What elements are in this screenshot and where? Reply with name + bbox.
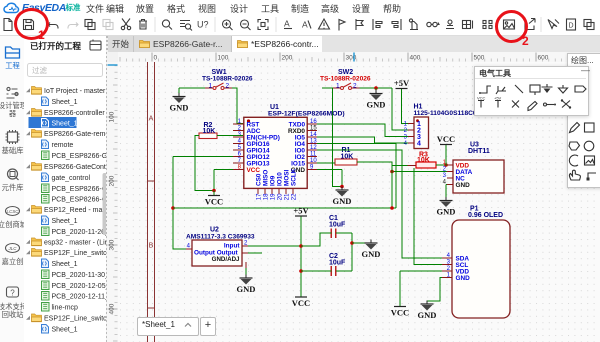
wire R1 net down to OLED SCL <box>414 168 442 265</box>
EasyEDA logo <box>1 0 96 14</box>
tree row ESP12F_Line_switch (folder) <box>26 250 30 254</box>
svg-text:A: A <box>284 19 290 29</box>
wire U3 GND down <box>445 185 447 201</box>
wire U1 GND pin east <box>317 169 342 171</box>
junction rail/input <box>299 244 303 248</box>
tree row gate_control (sheet) <box>42 173 49 182</box>
sidebar tab parts-lib <box>2 169 24 192</box>
toolbar icon netlabel <box>356 19 363 30</box>
svg-text:2: 2 <box>226 83 230 90</box>
svg-text:100: 100 <box>109 111 116 122</box>
svg-text:0: 0 <box>154 55 158 62</box>
svg-text:过滤: 过滤 <box>32 65 47 75</box>
svg-text:SCLK: SCLK <box>291 168 298 186</box>
svg-text:B: B <box>149 243 154 250</box>
svg-text:14: 14 <box>310 132 317 138</box>
svg-text:U2: U2 <box>210 227 219 234</box>
power flag +5V above U2 <box>293 206 309 217</box>
wire C1 west <box>301 233 331 246</box>
toolbar icon sep <box>548 20 559 29</box>
ground GND below U1 <box>333 187 352 207</box>
svg-text:PCB_2020-11-30_: PCB_2020-11-30_ <box>52 272 109 279</box>
schematic sheet frame border <box>148 62 155 342</box>
polygon tool <box>569 142 580 150</box>
tree row PCB_2020-11-30_ (pcb) <box>42 270 50 279</box>
pencil tool <box>570 123 580 133</box>
svg-text:+5V: +5V <box>293 206 309 216</box>
svg-text:Sheet_1: Sheet_1 <box>52 261 78 268</box>
svg-text:16: 16 <box>310 119 317 125</box>
wire branch to R3 <box>392 165 408 167</box>
wire C2 east <box>336 270 352 272</box>
wire U1 GND down <box>341 170 343 191</box>
wire U1 GPIO12 west <box>173 156 233 158</box>
svg-text:IoT Project - master -: IoT Project - master - <box>44 88 108 95</box>
ground GND below OLED <box>418 301 437 321</box>
svg-text:300: 300 <box>109 239 116 250</box>
svg-text:立创商城: 立创商城 <box>0 220 25 229</box>
svg-text:+5V: +5V <box>394 78 410 88</box>
wire U2 output stub <box>248 252 262 254</box>
svg-text:ESP8266-GateContr: ESP8266-GateContr <box>44 164 108 171</box>
svg-text:PCB_ESP8266-Ga: PCB_ESP8266-Ga <box>52 186 109 193</box>
power flag VCC below OLED VDD <box>391 307 409 318</box>
wire U1 VCC pin west <box>214 169 233 171</box>
tree row PCB_ESP8266-Ga (pcb) <box>42 184 50 193</box>
wire SW2 pin1 down to GND net <box>322 88 342 187</box>
toolbar icon row <box>0 14 600 36</box>
no-connect tool <box>512 101 519 108</box>
power flag VCC below U1 <box>205 196 223 207</box>
resistor R2 10K <box>199 122 217 139</box>
svg-text:Input: Input <box>224 243 240 250</box>
wire tool <box>481 86 491 93</box>
svg-text:line-mcp: line-mcp <box>52 305 79 312</box>
svg-text:CS0: CS0 <box>256 173 263 186</box>
wire U3 GND west <box>446 184 447 186</box>
toolbar icon save <box>24 20 34 30</box>
junction gnd join <box>340 185 344 189</box>
sidebar tab jlc <box>2 244 24 267</box>
horizontal ruler <box>107 52 600 62</box>
power flag VCC below C2 <box>292 297 310 308</box>
tree row PCB_2020-11-26_ (pcb) <box>42 227 50 236</box>
wire OLED GND west <box>427 278 442 302</box>
svg-text:?: ? <box>10 289 15 298</box>
wire U3 DATA west <box>392 171 447 173</box>
svg-text:嘉立创: 嘉立创 <box>2 257 24 266</box>
svg-text:GND: GND <box>367 100 386 110</box>
toolbar icon image-tool <box>525 19 535 30</box>
flywire tool <box>562 101 570 108</box>
tree row PCB_2020-12-11_2 (pcb) <box>42 292 50 301</box>
svg-text:Sheet_1: Sheet_1 <box>52 121 78 128</box>
wire C2 west <box>301 270 331 272</box>
svg-text:器: 器 <box>9 109 17 118</box>
vcc flag tool <box>478 101 484 108</box>
ground2 tool <box>559 85 568 93</box>
svg-text:0.96 OLED: 0.96 OLED <box>468 212 503 219</box>
canvas with rulers and schematic <box>107 52 600 342</box>
svg-text:LCSC: LCSC <box>6 209 19 214</box>
toolbar icon wizard <box>567 19 576 30</box>
wire U2 input to +5V rail <box>248 245 301 247</box>
svg-text:19: 19 <box>271 193 277 200</box>
svg-text:U?: U? <box>197 20 209 30</box>
ground GND below U2 <box>237 275 256 295</box>
tree row ESP8266-Gate-remo (folder) <box>26 131 30 135</box>
pushbutton switch SW1 <box>202 69 253 90</box>
toolbar icon undo <box>48 23 58 29</box>
red annotation circle 1 (save) <box>14 8 49 40</box>
wire +5V flag to H1 pin1 <box>402 89 409 124</box>
svg-text:回收站: 回收站 <box>2 310 24 319</box>
svg-text:IO10: IO10 <box>277 172 284 186</box>
ground GND below U3 <box>437 197 456 217</box>
wire DATA down to rail <box>391 166 393 209</box>
svg-text:esp32 - master - (Lin: esp32 - master - (Lin <box>44 240 108 247</box>
svg-text:100: 100 <box>218 55 229 62</box>
svg-text:10K: 10K <box>203 128 216 135</box>
toolbar icon zoom-search <box>162 20 172 30</box>
regulator U2 AMS1117-3.3 <box>186 227 255 269</box>
wire SW2 GND drop <box>375 88 377 94</box>
svg-text:1: 1 <box>336 83 340 90</box>
toolbar icon delete <box>139 20 147 30</box>
toolbar icon doc <box>584 20 594 30</box>
toolbar icon drc-warning <box>319 19 330 29</box>
resistor R1 10K <box>335 147 357 165</box>
svg-text:GND: GND <box>456 275 471 282</box>
svg-text:A: A <box>302 20 308 30</box>
toolbar icon copy <box>85 20 95 30</box>
toolbar icon array <box>483 21 492 29</box>
svg-text:400: 400 <box>109 303 116 314</box>
toolbar icon annot-a2 <box>302 20 311 30</box>
toolbar icon zoom-fit <box>258 20 268 30</box>
tab ESP8266-Gate-r... <box>134 36 232 52</box>
tree panel scrollbar <box>103 173 108 235</box>
toolbar icon via <box>446 20 454 29</box>
svg-text:remote: remote <box>52 142 74 149</box>
svg-text:GND: GND <box>456 182 471 189</box>
wire U1 IO0 to OLED SDA <box>317 150 442 258</box>
svg-text:10uF: 10uF <box>329 260 346 267</box>
svg-text:ESP12F_Line_switch: ESP12F_Line_switch <box>44 250 108 257</box>
arc tool <box>569 155 578 166</box>
ground GND right of caps <box>362 240 381 260</box>
junction rail end <box>390 206 394 210</box>
power flag VCC above U3 <box>437 134 455 145</box>
svg-text:2: 2 <box>353 83 357 90</box>
toolbar icon footprint <box>409 19 418 30</box>
pin tool <box>544 103 547 106</box>
svg-text:GND: GND <box>362 249 381 259</box>
power flag +5V near SW2 <box>394 78 410 89</box>
svg-text:GND/ADJ: GND/ADJ <box>212 256 240 263</box>
+5v flag tool <box>495 101 501 108</box>
toolbar icon netflag <box>339 20 345 31</box>
capacitor C2 10uF <box>329 253 346 276</box>
line tool <box>515 85 523 93</box>
wire SW2 pin2 east <box>360 87 393 89</box>
svg-text:500: 500 <box>474 55 485 62</box>
pushbutton switch SW2 <box>320 69 371 90</box>
svg-text:DHT11: DHT11 <box>468 148 490 155</box>
bottom sheet tab *Sheet_1 <box>137 317 199 336</box>
capacitor C1 10uF <box>329 215 346 238</box>
wire SW1 pin2 to U1 RST <box>232 88 243 124</box>
svg-text:21: 21 <box>285 193 291 200</box>
svg-text:200: 200 <box>109 175 116 186</box>
tree row Sheet_1 (sheet) <box>42 97 49 106</box>
svg-text:1: 1 <box>209 83 213 90</box>
junction rail tap <box>171 206 175 210</box>
project tree panel <box>24 36 108 342</box>
left sidebar icon strip <box>0 36 25 342</box>
sidebar tab design-manager <box>0 87 28 118</box>
top menu bar <box>0 0 600 14</box>
tree row PCB_ESP8266-Ga (pcb) <box>42 151 50 160</box>
svg-text:A: A <box>149 116 154 123</box>
drag tool <box>569 170 580 180</box>
toolbar icon cut <box>121 19 130 30</box>
drawing tools palette (right edge, partially covered) <box>567 53 600 188</box>
svg-text:Sheet_1: Sheet_1 <box>52 99 78 106</box>
toolbar icon find <box>180 21 192 31</box>
svg-text:gate_control: gate_control <box>52 175 91 182</box>
vertical ruler <box>107 62 118 342</box>
wire R2 to U1 EN <box>217 135 243 137</box>
toolbar icon annot-a <box>284 19 292 29</box>
wire C1 east <box>336 232 352 234</box>
svg-text:ESP8266-Gate-remo: ESP8266-Gate-remo <box>44 131 108 138</box>
new project button <box>90 40 101 51</box>
svg-text:JLC: JLC <box>7 246 17 251</box>
probe tool <box>528 102 537 111</box>
svg-text:Sheet_1: Sheet_1 <box>52 218 78 225</box>
svg-text:10K: 10K <box>341 154 354 161</box>
wire VCC to U3 VDD <box>446 145 453 165</box>
wire U1 IO5 to H1 pin4 <box>317 137 408 143</box>
toolbar icon bus <box>504 20 515 29</box>
svg-text:13: 13 <box>310 139 317 145</box>
svg-text:GND: GND <box>437 207 456 217</box>
svg-text:300: 300 <box>346 55 357 62</box>
wire R3 east to VCC <box>436 164 446 166</box>
junction cap gnd tap <box>350 241 354 245</box>
junction SW2 gnd tap <box>374 86 378 90</box>
tree row PCB_ESP8266-Ga (pcb) <box>42 195 50 204</box>
tab 开始 <box>108 36 134 52</box>
junction VCC junction <box>212 189 216 193</box>
red annotation circle 2 (image tool) <box>495 10 528 43</box>
polyline tool <box>588 173 596 179</box>
connector H1 1125-1104G0S118C00S <box>404 104 491 149</box>
add sheet button <box>200 317 216 336</box>
svg-text:GND: GND <box>170 103 189 113</box>
net label tool <box>530 85 540 92</box>
toolbar icon align-left <box>373 19 382 30</box>
svg-text:17: 17 <box>257 193 263 200</box>
svg-text:IO9: IO9 <box>270 175 277 186</box>
toolbar icon zoom-in <box>223 20 233 30</box>
svg-text:ESP8266-controller -: ESP8266-controller - <box>44 110 108 117</box>
junction rail/C2 <box>299 269 303 273</box>
svg-text:ESP12F_Line_switch: ESP12F_Line_switch <box>44 316 108 323</box>
svg-text:10K: 10K <box>417 157 430 164</box>
tree row Sheet_1 (sheetsel) <box>29 117 77 128</box>
svg-text:TS-1088R-02026: TS-1088R-02026 <box>320 76 371 83</box>
svg-text:VCC: VCC <box>391 308 409 318</box>
wire U2 GND down <box>245 268 247 278</box>
svg-text:VCC: VCC <box>205 197 223 207</box>
svg-text:15: 15 <box>310 126 317 132</box>
svg-text:已打开的工程: 已打开的工程 <box>30 41 82 51</box>
tree row IoT Project - master - (folder) <box>26 88 30 92</box>
svg-text:ESP-12F(ESP8266MOD): ESP-12F(ESP8266MOD) <box>268 111 345 118</box>
wire R2 to VCC net <box>195 136 214 191</box>
wire GPIO12 to U2 input <box>173 157 192 250</box>
wire +5V to VCC rail <box>300 217 302 298</box>
toolbar icon new <box>4 19 12 31</box>
wire U1 IO4 down to rail <box>317 144 396 209</box>
svg-text:MISO: MISO <box>263 170 270 186</box>
document tab bar <box>108 36 600 53</box>
tree row esp32 - master - (Lin (folder) <box>26 240 30 244</box>
electrical tools palette 电气工具 <box>474 66 589 116</box>
svg-text:PCB_2020-12-11_2: PCB_2020-12-11_2 <box>52 294 109 301</box>
svg-text:基础库: 基础库 <box>2 146 24 155</box>
svg-text:PCB_2020-12-05_: PCB_2020-12-05_ <box>52 283 109 290</box>
tree row ESP8266-controller - (folder) <box>26 110 30 114</box>
sidebar tab project <box>5 47 20 70</box>
sidebar tab basic-lib <box>2 130 24 155</box>
junction R3/VDD junction <box>444 163 448 167</box>
wire SW1 GND drop <box>178 88 180 97</box>
filter input <box>28 64 103 77</box>
svg-text:10uF: 10uF <box>329 222 346 229</box>
bus tool <box>496 86 506 94</box>
ground tool <box>542 84 553 87</box>
wire U1 IO15 to R1 <box>317 162 335 164</box>
toolbar icon align-right <box>392 19 401 30</box>
tree row ESP12F_Line_switch (folder) <box>26 316 30 320</box>
toolbar icon paste <box>103 20 113 30</box>
svg-text:400: 400 <box>410 55 421 62</box>
wire SW1 pin1 to GND <box>179 87 205 89</box>
tree row remote (sheet) <box>42 140 49 149</box>
sidebar tab lcsc-mall <box>0 207 28 230</box>
svg-text:22: 22 <box>292 193 298 200</box>
resistor R3 10K (highlighted red) <box>416 152 436 169</box>
svg-text:GND: GND <box>237 284 256 294</box>
svg-text:11: 11 <box>310 152 317 158</box>
IC U3 DHT11 <box>443 142 504 194</box>
svg-text:PCB_2020-11-26_: PCB_2020-11-26_ <box>52 229 109 236</box>
tree row line-mcp (pcb) <box>42 303 50 312</box>
svg-text:MOSI: MOSI <box>284 169 291 186</box>
wire U1 VCC down <box>213 170 215 191</box>
svg-text:VCC: VCC <box>292 298 310 308</box>
tab *ESP8266-contr... (active) <box>232 36 322 52</box>
ground GND at SW1 <box>170 93 189 113</box>
svg-text:18: 18 <box>264 193 270 200</box>
svg-text:GND: GND <box>333 196 352 206</box>
svg-text:200: 200 <box>282 55 293 62</box>
svg-text:10: 10 <box>310 158 317 164</box>
svg-text:+5V: +5V <box>494 96 502 101</box>
toolbar icon pad <box>427 22 439 26</box>
wire R1 east <box>357 162 392 166</box>
wire caps to GND <box>352 242 371 244</box>
tree row ESP8266-GateContr (folder) <box>26 164 30 168</box>
toolbar icon table <box>463 21 473 29</box>
svg-text:标准: 标准 <box>65 2 81 12</box>
ellipse tool <box>584 141 594 151</box>
wire OLED VCC drop <box>399 271 401 306</box>
wire cap east rail <box>351 233 353 271</box>
wire long horizontal rail <box>173 207 396 209</box>
junction DATA tap <box>390 170 394 174</box>
display P1 0.96 OLED <box>442 206 510 319</box>
toolbar icon zoom-out <box>241 20 251 30</box>
svg-text:元件库: 元件库 <box>2 183 24 192</box>
tree row PCB_2020-12-05_ (pcb) <box>42 281 50 290</box>
svg-text:20: 20 <box>278 193 284 200</box>
svg-text:PCB_ESP8266-Ga: PCB_ESP8266-Ga <box>52 153 109 160</box>
svg-text:工程: 工程 <box>5 61 20 70</box>
ground GND at SW2 <box>367 90 386 110</box>
svg-text:D: D <box>569 23 574 30</box>
svg-text:Sheet_1: Sheet_1 <box>52 327 78 334</box>
wire SW2 net to H1 pin2 <box>392 88 408 130</box>
sidebar tab support <box>0 287 27 319</box>
tree row Sheet_1 (sheet) <box>42 259 49 268</box>
wire VCC to OLED VDD <box>400 270 442 272</box>
svg-text:GND: GND <box>418 310 437 320</box>
svg-text:AMS1117-3.3 C369933: AMS1117-3.3 C369933 <box>186 234 255 241</box>
svg-text:600: 600 <box>538 55 549 62</box>
svg-text:ESP12_Reed - mast: ESP12_Reed - mast <box>44 207 108 214</box>
wire VCC flag stub <box>213 191 215 196</box>
svg-text:VCC: VCC <box>477 96 486 101</box>
toolbar icon redo <box>68 23 78 29</box>
svg-text:VCC: VCC <box>247 167 261 174</box>
svg-text:12: 12 <box>310 145 317 151</box>
svg-text:4: 4 <box>417 141 421 148</box>
IC U1 ESP-12F(ESP8266MOD) <box>233 104 345 200</box>
tree row ESP12_Reed - mast (folder) <box>26 207 30 211</box>
toolbar icon netprobe <box>197 20 209 30</box>
panel splitter <box>106 36 108 342</box>
image tool <box>585 156 595 165</box>
svg-text:VCC: VCC <box>437 134 455 144</box>
rect tool <box>585 123 595 132</box>
tree row Sheet_1 (sheet) <box>42 325 49 334</box>
tree row Sheet_1 (sheet) <box>42 216 49 225</box>
net port tool <box>575 86 586 92</box>
svg-text:TS-1088R-02026: TS-1088R-02026 <box>202 76 253 83</box>
svg-text:PCB_ESP8266-Ga: PCB_ESP8266-Ga <box>52 197 109 204</box>
wire U1 TXD0 to H1 pin3 <box>317 124 408 137</box>
